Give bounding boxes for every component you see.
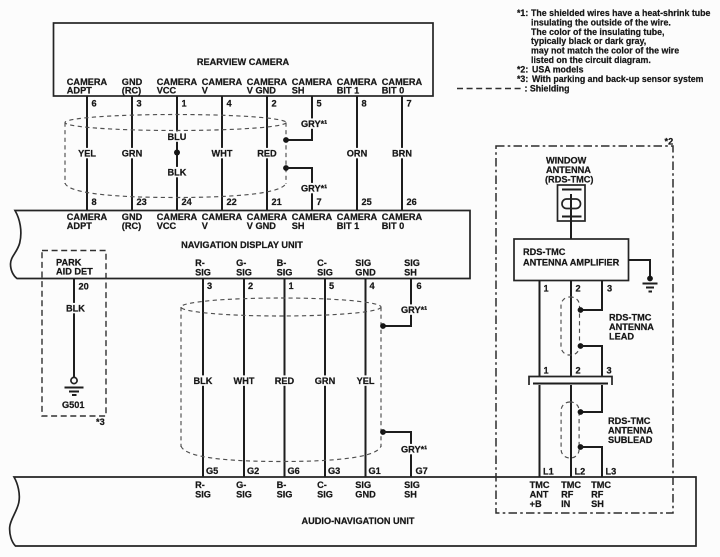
svg-text:BIT 0: BIT 0 — [382, 86, 404, 96]
svg-text:6: 6 — [417, 281, 422, 291]
svg-text:: Shielding: : Shielding — [525, 84, 570, 94]
svg-text:3: 3 — [607, 366, 612, 376]
pin number 5 — [317, 99, 322, 109]
amplifier pin number 1 — [544, 284, 549, 294]
pin label CAMERA BIT 1 — [337, 77, 378, 96]
label GRY*1 lower — [400, 444, 429, 455]
svg-text:SIG: SIG — [236, 268, 252, 278]
wire amplifier pin 2 to connector — [570, 281, 572, 377]
USA models dashed enclosure *2 — [496, 146, 673, 513]
svg-text:With parking and back-up senso: With parking and back-up sensor system — [532, 74, 704, 84]
note marker *3 — [96, 417, 105, 427]
shield node lower lead — [578, 343, 584, 349]
pin number 8 — [362, 99, 367, 109]
svg-text:SH: SH — [404, 490, 417, 500]
audio pin label TMC RF SH — [591, 480, 611, 509]
pin label CAMERA SH — [292, 77, 333, 96]
wire SIG SH upper GRY segment — [383, 279, 411, 327]
ground at amplifier — [643, 276, 658, 292]
connector pin number 2 — [576, 366, 581, 376]
svg-text:IN: IN — [561, 499, 571, 509]
nav bottom pin number 3 — [207, 281, 212, 291]
svg-text:BLU: BLU — [168, 132, 187, 142]
svg-text:1: 1 — [544, 366, 549, 376]
svg-text:RED: RED — [257, 149, 277, 159]
nav pin label CAMERA V — [202, 212, 243, 231]
shield capsule antenna sublead — [561, 402, 579, 458]
svg-text:23: 23 — [137, 197, 147, 207]
wire C-SIG GRN — [324, 279, 326, 478]
audio pin label G-SIG — [236, 480, 252, 500]
park aid det pin label — [56, 258, 93, 277]
audio pin label TMC RF IN — [561, 480, 581, 509]
RDS-TMC antenna amplifier box — [514, 239, 629, 281]
svg-text:SH: SH — [292, 86, 305, 96]
svg-text:ADPT: ADPT — [67, 86, 92, 96]
wire PARK AID DET BLK — [73, 279, 75, 378]
svg-text:SIG: SIG — [404, 258, 420, 268]
nav bottom pin number 2 — [248, 281, 253, 291]
svg-text:GRY*¹: GRY*¹ — [301, 184, 327, 194]
wire CAMERA SH lower GRY segment — [286, 168, 312, 211]
wire SIG GND YEL — [365, 279, 367, 478]
wire CAMERA V GND RED — [266, 96, 268, 211]
nav pin label CAMERA SH — [292, 212, 333, 231]
svg-text:SUBLEAD: SUBLEAD — [608, 435, 653, 445]
wire amplifier pin 3 shield upper — [581, 281, 602, 311]
svg-text:VCC: VCC — [157, 221, 177, 231]
wire SIG SH lower GRY segment — [383, 432, 411, 477]
audio pin number G5 — [206, 466, 218, 476]
audio pin label R-SIG — [195, 480, 211, 500]
svg-text:V GND: V GND — [247, 221, 276, 231]
audio pin number G6 — [288, 466, 300, 476]
svg-text:22: 22 — [227, 197, 237, 207]
shield node upper sublead — [578, 409, 584, 415]
svg-text:21: 21 — [272, 197, 282, 207]
nav pin label CAMERA V GND — [247, 212, 288, 231]
note marker *2 — [665, 137, 674, 147]
svg-text:RDS-TMC: RDS-TMC — [609, 313, 652, 323]
svg-text:24: 24 — [182, 197, 193, 207]
wire color label WHT — [231, 375, 257, 386]
wire amplifier pin 1 to connector — [539, 281, 541, 377]
svg-text:WINDOW: WINDOW — [546, 156, 587, 166]
svg-text:AID DET: AID DET — [56, 267, 93, 277]
nav pin label R-SIG — [195, 258, 211, 278]
pin number 7 — [407, 99, 412, 109]
pin label GND (RC) — [122, 77, 143, 96]
wire color label BLK — [191, 375, 215, 386]
svg-text:WHT: WHT — [234, 376, 255, 386]
svg-text:G3: G3 — [328, 466, 340, 476]
svg-text:(RDS-TMC): (RDS-TMC) — [545, 175, 593, 185]
svg-text:SIG: SIG — [355, 258, 371, 268]
svg-text:RF: RF — [591, 490, 604, 500]
shield connection node lower — [380, 429, 386, 435]
svg-text:G-: G- — [236, 258, 246, 268]
park aid det dashed enclosure *3 — [42, 251, 106, 417]
svg-text:GRN: GRN — [122, 149, 143, 159]
svg-text:7: 7 — [317, 197, 322, 207]
svg-text:4: 4 — [370, 281, 376, 291]
svg-text:*3:: *3: — [517, 74, 528, 84]
svg-text:3: 3 — [137, 99, 142, 109]
svg-text:*2: *2 — [665, 137, 674, 147]
shield node lower sublead — [578, 444, 584, 450]
svg-text:AUDIO-NAVIGATION UNIT: AUDIO-NAVIGATION UNIT — [302, 516, 415, 526]
svg-text:BIT 1: BIT 1 — [337, 86, 359, 96]
pin number 20 — [79, 282, 89, 292]
svg-text:5: 5 — [317, 99, 322, 109]
pin number 23 nav — [137, 197, 147, 207]
svg-text:YEL: YEL — [357, 376, 375, 386]
pin number 22 nav — [227, 197, 237, 207]
splice junction on BLU/BLK wire — [174, 150, 180, 156]
svg-text:G5: G5 — [206, 466, 218, 476]
nav pin label SIG GND — [355, 258, 376, 278]
inline connector bar — [529, 377, 612, 386]
svg-text:SIG: SIG — [236, 490, 252, 500]
nav pin label CAMERA BIT 1 — [337, 212, 378, 231]
svg-text:ANTENNA AMPLIFIER: ANTENNA AMPLIFIER — [523, 258, 620, 268]
rearview camera unit box — [54, 23, 434, 96]
svg-text:RDS-TMC: RDS-TMC — [523, 247, 566, 257]
ground name G501 — [62, 400, 84, 410]
svg-text:GND: GND — [355, 490, 376, 500]
wire CAMERA BIT 0 BRN — [401, 96, 403, 211]
svg-text:R-: R- — [195, 480, 205, 490]
svg-text:SIG: SIG — [317, 490, 333, 500]
svg-text:L2: L2 — [575, 467, 586, 477]
amplifier pin number 3 — [607, 284, 612, 294]
svg-text:7: 7 — [407, 99, 412, 109]
pin number 2 — [272, 99, 277, 109]
svg-text:G1: G1 — [369, 466, 381, 476]
amplifier pin number 2 — [576, 284, 581, 294]
svg-text:1: 1 — [182, 99, 187, 109]
shield node upper lead — [578, 307, 584, 313]
svg-text:G2: G2 — [247, 466, 259, 476]
svg-text:2: 2 — [272, 99, 277, 109]
pin number 7 nav — [317, 197, 322, 207]
pin number 26 nav — [407, 197, 417, 207]
legend shielding text — [525, 84, 570, 94]
nav bottom pin number 6 — [417, 281, 422, 291]
svg-text:*1:: *1: — [517, 8, 528, 18]
svg-text:SH: SH — [404, 268, 417, 278]
nav pin label B-SIG — [277, 258, 293, 278]
svg-text:SIG: SIG — [195, 490, 211, 500]
wire amplifier to ground — [629, 260, 651, 277]
svg-text:GND: GND — [355, 268, 376, 278]
note *3 parking sensor — [517, 74, 704, 84]
svg-text:+B: +B — [530, 499, 542, 509]
pin number 1 — [182, 99, 187, 109]
audio pin label C-SIG — [317, 480, 333, 500]
nav pin label C-SIG — [317, 258, 333, 278]
pin number 24 nav — [182, 197, 193, 207]
svg-text:GRY*¹: GRY*¹ — [401, 305, 427, 315]
shield capsule antenna lead — [561, 297, 580, 355]
wire connector pin 3 shield upper — [581, 385, 602, 412]
svg-text:RDS-TMC: RDS-TMC — [608, 416, 651, 426]
pin label CAMERA V GND — [247, 77, 288, 96]
svg-text:*3: *3 — [96, 417, 105, 427]
legend shielding dashed sample — [457, 88, 521, 90]
shield connection node lower — [283, 165, 289, 171]
svg-text:ADPT: ADPT — [67, 221, 92, 231]
wire G-SIG WHT — [243, 279, 245, 478]
pin label CAMERA BIT 0 — [382, 77, 423, 96]
wire color label YEL — [354, 375, 377, 386]
pin number 4 — [227, 99, 233, 109]
wire color label GRN — [119, 148, 144, 159]
pin label CAMERA V — [202, 77, 243, 96]
svg-text:3: 3 — [207, 281, 212, 291]
pin number 6 — [92, 99, 97, 109]
label RDS-TMC antenna lead — [609, 313, 654, 342]
wire color label WHT — [209, 148, 235, 159]
svg-text:ANTENNA: ANTENNA — [608, 426, 653, 436]
svg-text:(RC): (RC) — [122, 221, 141, 231]
svg-text:20: 20 — [79, 282, 89, 292]
svg-text:NAVIGATION DISPLAY UNIT: NAVIGATION DISPLAY UNIT — [181, 240, 303, 250]
svg-text:(RC): (RC) — [122, 86, 141, 96]
wire R-SIG BLK — [202, 279, 204, 478]
svg-text:SH: SH — [292, 221, 305, 231]
pin number 25 nav — [362, 197, 372, 207]
nav pin label SIG SH — [404, 258, 420, 278]
wire antenna to amplifier — [570, 221, 572, 239]
svg-text:TMC: TMC — [530, 480, 550, 490]
wire CAMERA VCC BLU/BLK — [176, 96, 178, 211]
audio pin number L2 — [575, 467, 586, 477]
audio pin label SIG GND — [355, 480, 376, 500]
wire shield to connector pin 3 — [581, 346, 602, 377]
svg-text:ANT: ANT — [530, 490, 549, 500]
wire CAMERA V WHT — [221, 96, 223, 211]
nav bottom pin number 5 — [329, 281, 334, 291]
svg-text:6: 6 — [92, 99, 97, 109]
label GRY*1 upper — [400, 304, 429, 315]
ground G501 — [65, 377, 84, 395]
svg-text:SIG: SIG — [355, 480, 371, 490]
svg-text:4: 4 — [227, 99, 233, 109]
svg-text:V: V — [202, 86, 209, 96]
shield capsule around camera wires — [65, 115, 286, 198]
label RDS-TMC antenna sublead — [608, 416, 653, 445]
wire connector pin 2 to TMC RF IN — [570, 385, 572, 477]
svg-text:1: 1 — [289, 281, 294, 291]
svg-text:LEAD: LEAD — [609, 332, 634, 342]
svg-text:SIG: SIG — [195, 268, 211, 278]
svg-text:1: 1 — [544, 284, 549, 294]
svg-text:ANTENNA: ANTENNA — [609, 322, 654, 332]
nav pin label G-SIG — [236, 258, 252, 278]
svg-text:REARVIEW CAMERA: REARVIEW CAMERA — [197, 57, 290, 67]
nav pin label CAMERA BIT 0 — [382, 212, 423, 231]
svg-text:BLK: BLK — [66, 304, 85, 314]
svg-text:2: 2 — [576, 284, 581, 294]
svg-text:R-: R- — [195, 258, 205, 268]
svg-text:RF: RF — [561, 490, 574, 500]
svg-text:ORN: ORN — [347, 149, 368, 159]
note *1 heat-shrink tube — [517, 8, 711, 65]
svg-text:ANTENNA: ANTENNA — [546, 165, 591, 175]
note *2 USA models — [517, 65, 584, 75]
shield capsule around signal wires — [181, 298, 381, 462]
svg-text:SIG: SIG — [277, 268, 293, 278]
pin number 3 — [137, 99, 142, 109]
nav pin label CAMERA VCC — [157, 212, 198, 231]
wire connector pin 1 to TMC ANT +B — [539, 385, 541, 477]
svg-text:G-: G- — [236, 480, 246, 490]
shield connection node upper — [283, 137, 289, 143]
navigation display unit box — [11, 211, 471, 279]
window antenna label — [545, 156, 593, 185]
audio pin number G7 — [416, 466, 428, 476]
svg-text:G501: G501 — [62, 400, 84, 410]
svg-text:SIG: SIG — [277, 490, 293, 500]
svg-text:V: V — [202, 221, 209, 231]
label GRY*1 upper — [300, 118, 329, 129]
svg-text:8: 8 — [92, 197, 97, 207]
nav pin label GND (RC) — [122, 212, 143, 231]
svg-text:GRY*¹: GRY*¹ — [401, 445, 427, 455]
svg-text:C-: C- — [317, 258, 327, 268]
audio pin label TMC ANT +B — [530, 480, 550, 509]
svg-text:L1: L1 — [543, 467, 554, 477]
wire color label BLU — [165, 131, 189, 142]
connector pin number 3 — [607, 366, 612, 376]
svg-text:B-: B- — [277, 258, 287, 268]
svg-text:TMC: TMC — [561, 480, 581, 490]
svg-text:TMC: TMC — [591, 480, 611, 490]
wire CAMERA BIT 1 ORN — [356, 96, 358, 211]
svg-text:WHT: WHT — [212, 149, 233, 159]
audio pin label B-SIG — [277, 480, 293, 500]
wire color label YEL — [76, 148, 99, 159]
wire color label BLK — [165, 167, 189, 178]
wire color label RED — [272, 375, 296, 386]
svg-text:listed on the circuit diagram.: listed on the circuit diagram. — [531, 55, 651, 65]
svg-text:BIT 1: BIT 1 — [337, 221, 359, 231]
shield connection node upper — [380, 323, 386, 329]
svg-text:BLK: BLK — [168, 168, 187, 178]
svg-text:L3: L3 — [606, 467, 617, 477]
pin number 8 nav — [92, 197, 97, 207]
svg-text:G7: G7 — [416, 466, 428, 476]
nav bottom pin number 4 — [370, 281, 376, 291]
nav pin label CAMERA ADPT — [67, 212, 108, 231]
wire color label RED — [255, 148, 279, 159]
svg-text:G6: G6 — [288, 466, 300, 476]
nav bottom pin number 1 — [289, 281, 294, 291]
audio pin label SIG SH — [404, 480, 420, 500]
audio pin number G2 — [247, 466, 259, 476]
svg-text:RED: RED — [275, 376, 295, 386]
svg-text:26: 26 — [407, 197, 417, 207]
svg-text:2: 2 — [576, 366, 581, 376]
pin label CAMERA VCC — [157, 77, 198, 96]
svg-text:C-: C- — [317, 480, 327, 490]
audio pin number G3 — [328, 466, 340, 476]
svg-text:25: 25 — [362, 197, 372, 207]
wire color label GRN — [312, 375, 337, 386]
wire CAMERA SH upper GRY segment — [286, 96, 312, 140]
pin number 21 nav — [272, 197, 282, 207]
svg-text:GRN: GRN — [315, 376, 336, 386]
svg-text:VCC: VCC — [157, 86, 177, 96]
wire color label BRN — [390, 148, 415, 159]
svg-text:2: 2 — [248, 281, 253, 291]
svg-text:BLK: BLK — [194, 376, 213, 386]
wire color label BLK — [64, 303, 87, 314]
window antenna symbol — [558, 185, 586, 221]
svg-text:B-: B- — [277, 480, 287, 490]
svg-text:V GND: V GND — [247, 86, 276, 96]
svg-text:8: 8 — [362, 99, 367, 109]
wire shield to TMC RF SH — [581, 447, 602, 477]
label GRY*1 lower — [300, 183, 329, 194]
connector pin number 1 — [544, 366, 549, 376]
audio pin number L3 — [606, 467, 617, 477]
svg-text:SH: SH — [591, 499, 604, 509]
svg-text:5: 5 — [329, 281, 334, 291]
svg-text:SIG: SIG — [404, 480, 420, 490]
wire color label ORN — [344, 148, 369, 159]
svg-text:SIG: SIG — [317, 268, 333, 278]
audio-navigation unit box — [10, 477, 696, 546]
svg-text:GRY*¹: GRY*¹ — [301, 119, 327, 129]
audio pin number L1 — [543, 467, 554, 477]
wire CAMERA ADPT YEL — [86, 96, 88, 211]
svg-text:BIT 0: BIT 0 — [382, 221, 404, 231]
svg-text:YEL: YEL — [78, 149, 96, 159]
audio pin number G1 — [369, 466, 381, 476]
svg-text:BRN: BRN — [392, 149, 412, 159]
pin label CAMERA ADPT — [67, 77, 108, 96]
wire GND (RC) GRN — [131, 96, 133, 211]
wire B-SIG RED — [284, 279, 286, 478]
svg-text:3: 3 — [607, 284, 612, 294]
